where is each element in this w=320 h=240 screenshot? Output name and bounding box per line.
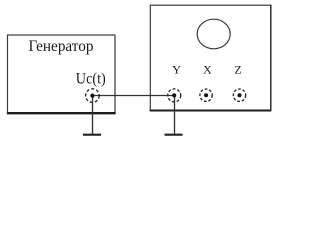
terminal Y: contact dot — [172, 93, 176, 97]
terminal X: dashed circle — [200, 89, 212, 101]
wire generator terminal to Y terminal — [93, 95, 175, 97]
terminal Z: dashed circle — [233, 89, 245, 101]
svg-text:Генератор: Генератор — [29, 38, 94, 55]
terminal Uc(t): contact dot — [90, 94, 94, 98]
oscilloscope right edge — [270, 5, 272, 111]
oscilloscope box — [150, 5, 270, 110]
terminal Y: dashed circle — [168, 89, 181, 102]
svg-text:X: X — [203, 63, 212, 77]
svg-text:Z: Z — [234, 63, 241, 77]
generator box bottom edge — [7, 112, 116, 114]
terminal X: contact dot — [204, 93, 208, 97]
ground (oscilloscope) — [165, 134, 183, 136]
wire generator terminal down to ground — [92, 96, 94, 135]
oscilloscope box bottom edge — [150, 109, 272, 111]
svg-text:Y: Y — [172, 63, 181, 77]
generator box — [8, 35, 116, 113]
CRT screen ellipse — [197, 19, 230, 49]
ground (generator) — [83, 134, 101, 136]
wire Y terminal down to ground — [174, 96, 176, 135]
terminal Uc(t): dashed circle — [86, 89, 100, 103]
svg-text:Uc(t): Uc(t) — [76, 70, 106, 87]
terminal Z: contact dot — [238, 93, 242, 97]
